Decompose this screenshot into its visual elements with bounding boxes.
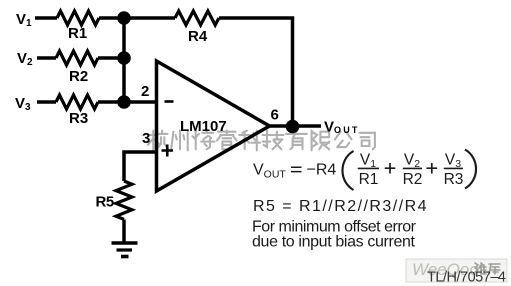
svg-text:6: 6	[271, 107, 279, 124]
svg-text:R4: R4	[188, 28, 208, 45]
svg-text:R5 = R1//R2//R3//R4: R5 = R1//R2//R3//R4	[253, 198, 427, 215]
svg-text:R2: R2	[403, 171, 423, 188]
svg-text:R5: R5	[96, 194, 114, 211]
svg-text:TL/H/7057–4: TL/H/7057–4	[427, 270, 506, 286]
svg-text:R3: R3	[69, 110, 88, 127]
svg-text:−R4: −R4	[307, 162, 337, 179]
svg-text:R1: R1	[359, 171, 379, 188]
svg-text:2: 2	[141, 83, 149, 100]
svg-text:due to input bias current: due to input bias current	[252, 234, 416, 251]
svg-text:R1: R1	[68, 25, 87, 42]
svg-text:R2: R2	[69, 68, 88, 85]
svg-text:R3: R3	[444, 171, 464, 188]
